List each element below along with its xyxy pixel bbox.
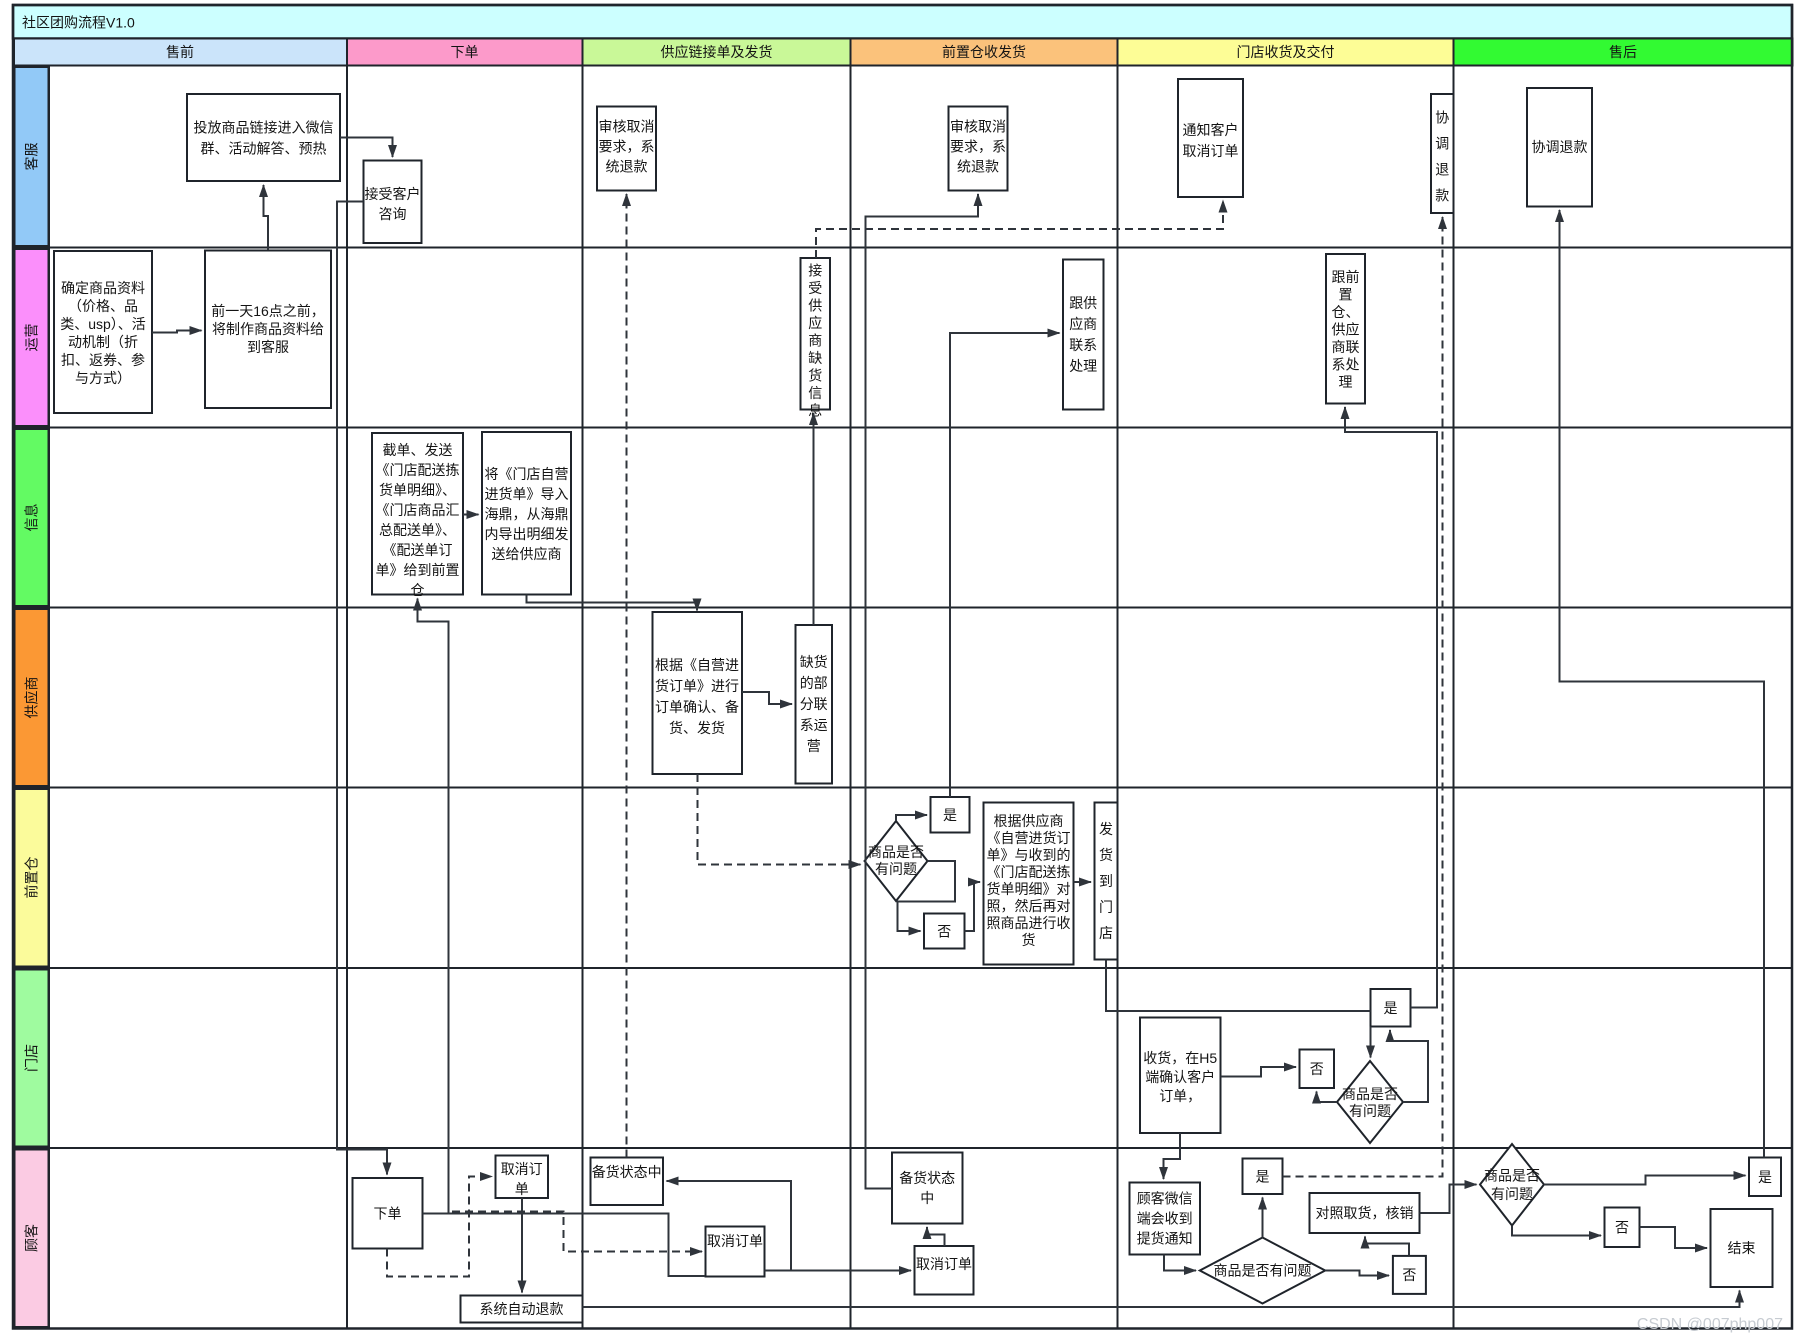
svg-text:供: 供 — [808, 298, 822, 314]
svg-text:结束: 结束 — [1728, 1240, 1756, 1256]
svg-text:单》给到前置: 单》给到前置 — [376, 562, 460, 578]
column boundary lines — [49, 66, 1454, 1329]
svg-text:单: 单 — [515, 1181, 529, 1197]
svg-text:前一天16点之前，: 前一天16点之前， — [211, 303, 325, 319]
lane boundary lines — [13, 248, 1792, 1149]
svg-text:动机制（折: 动机制（折 — [68, 334, 138, 350]
column header 供应链接单及发货 — [583, 39, 851, 66]
wire 顾客微信端 to 商品是否有问题(顾客/门店) — [1164, 1255, 1196, 1271]
svg-text:下单: 下单 — [451, 44, 479, 60]
svg-text:供应: 供应 — [1332, 322, 1360, 338]
svg-text:下单: 下单 — [374, 1206, 402, 1222]
wire 确定商品资料 to 前一天16点之前 — [152, 331, 202, 333]
svg-text:置: 置 — [1339, 287, 1353, 303]
svg-text:跟供: 跟供 — [1069, 295, 1097, 311]
wire 截单 to 将《门店自营进货单》 — [463, 514, 479, 516]
svg-text:审核取消: 审核取消 — [599, 119, 655, 135]
svg-text:截单、发送: 截单、发送 — [383, 442, 453, 458]
svg-text:仓、: 仓、 — [1332, 304, 1360, 320]
svg-text:否: 否 — [1615, 1220, 1629, 1236]
svg-text:信息: 信息 — [24, 504, 40, 532]
decision diamond 商品是否有问题 (顾客/门店) — [1200, 1238, 1325, 1304]
svg-text:前置仓收发货: 前置仓收发货 — [942, 44, 1026, 60]
wire 将《门店自营进货单》 to 根据《自营进货订单》 — [527, 595, 698, 611]
svg-text:内导出明细发: 内导出明细发 — [485, 526, 569, 542]
svg-text:是: 是 — [1384, 1000, 1398, 1016]
svg-text:店: 店 — [1099, 925, 1113, 941]
svg-text:《配送单订: 《配送单订 — [383, 542, 453, 558]
svg-text:取消订: 取消订 — [501, 1161, 543, 1177]
svg-text:提货通知: 提货通知 — [1137, 1231, 1193, 1247]
wire 否(售后) to 结束 — [1640, 1227, 1708, 1248]
title bar — [13, 5, 1792, 39]
wire 接受客户咨询 to 下单 — [337, 202, 387, 1175]
process box 取消订单 #3 (顾客/前置仓) — [915, 1246, 974, 1295]
lane label 客服 — [15, 67, 49, 246]
svg-text:商: 商 — [808, 333, 822, 349]
svg-text:进货单》导入: 进货单》导入 — [485, 486, 569, 502]
svg-text:将制作商品资料给: 将制作商品资料给 — [212, 321, 324, 337]
process box 根据《自营进货订单》进行订单确认 (供应商/供应链) — [653, 612, 743, 774]
wire 根据供应商对照收货 to 发货到门店 — [1074, 881, 1092, 883]
wire 下单 to 取消订单2 bottom corner — [449, 1214, 706, 1277]
svg-text:货订单》进行: 货订单》进行 — [655, 678, 739, 694]
wire 取消订单3 to 备货状态中2 — [927, 1227, 945, 1246]
svg-text:取消订单: 取消订单 — [916, 1256, 972, 1272]
svg-text:顾客: 顾客 — [24, 1224, 40, 1252]
process box 投放商品链接进入微信群、活动解答、预热 (客服/售前) — [187, 94, 340, 181]
dashed wire 备货状态中1 to 审核取消1 — [626, 194, 628, 1158]
dashed wire 是(顾客/门店) to 协调退款(门店narrow) — [1283, 217, 1443, 1177]
svg-text:总配送单》、: 总配送单》、 — [379, 522, 456, 538]
svg-text:系运: 系运 — [800, 717, 828, 733]
svg-text:是: 是 — [1256, 1169, 1270, 1185]
svg-text:商品是否: 商品是否 — [1484, 1168, 1540, 1184]
process box 发货到门店 vertical (前置仓) — [1095, 803, 1118, 960]
svg-text:协调退款: 协调退款 — [1532, 139, 1588, 155]
svg-text:端会收到: 端会收到 — [1137, 1211, 1193, 1227]
column header 售前 — [14, 39, 347, 66]
process box 审核取消要求，系统退款 #2 (客服/前置仓) — [949, 107, 1008, 191]
decision diamond 商品是否有问题 (门店) — [1337, 1061, 1403, 1143]
wire 否(前置仓) to 根据供应商对照收货 — [965, 882, 981, 931]
lane label 门店 — [15, 970, 49, 1147]
wire 系统自动退款 to 结束 — [583, 1291, 1740, 1308]
svg-text:类、usp）、活: 类、usp）、活 — [60, 316, 146, 332]
process box 收货，在H5端确认客户订单 (门店) — [1140, 1018, 1221, 1134]
process box 系统自动退款 (顾客/下单) — [461, 1296, 583, 1323]
svg-text:投放商品链接进入微信: 投放商品链接进入微信 — [194, 120, 334, 136]
dashed wire 下单 to 取消订单1 — [387, 1177, 492, 1277]
wire 商品是否有问题(门店) to 是(门店) loop — [1390, 1030, 1428, 1102]
svg-text:商品是否有问题: 商品是否有问题 — [1214, 1263, 1312, 1279]
svg-text:供应链接单及发货: 供应链接单及发货 — [661, 44, 773, 60]
box 否 (顾客/门店) — [1393, 1256, 1426, 1294]
process box 截单、发送...给到前置仓 (信息/下单) — [372, 433, 463, 598]
svg-text:订单，: 订单， — [1159, 1088, 1201, 1104]
svg-text:有问题: 有问题 — [1491, 1186, 1533, 1202]
svg-text:群、活动解答、预热: 群、活动解答、预热 — [201, 141, 327, 157]
dashed wire 接受供应商缺货信息 to 通知客户取消订单 — [816, 201, 1223, 259]
svg-text:扣、返券、参: 扣、返券、参 — [61, 352, 145, 368]
svg-text:照商品进行收: 照商品进行收 — [987, 915, 1071, 931]
svg-text:单》与收到的: 单》与收到的 — [987, 847, 1071, 863]
wire 备货状态中2 to 审核取消2 — [866, 194, 979, 1189]
column header 门店收货及交付 — [1118, 39, 1454, 66]
svg-text:《门店配送拣: 《门店配送拣 — [376, 462, 460, 478]
svg-text:系处: 系处 — [1332, 357, 1360, 373]
svg-text:否: 否 — [937, 924, 951, 940]
column header 下单 — [347, 39, 583, 66]
process box 接受供应商缺货信息 vertical (运营/供应链) — [801, 258, 831, 419]
wire 取消订单2 to 取消订单3 — [765, 1270, 912, 1272]
svg-text:通知客户: 通知客户 — [1183, 122, 1239, 138]
process box 确定商品资料 (运营/售前) — [54, 251, 152, 413]
svg-text:货: 货 — [808, 368, 822, 384]
wire 前一天16点之前 to 投放商品链接 — [264, 185, 269, 250]
process box 取消订单 #1 (顾客/下单) — [496, 1156, 549, 1199]
svg-text:的部: 的部 — [800, 675, 828, 691]
svg-text:到客服: 到客服 — [247, 339, 289, 355]
process box 通知客户取消订单 (客服/门店) — [1178, 79, 1243, 197]
process box 顾客微信端会收到提货通知 (顾客/门店) — [1130, 1183, 1201, 1255]
process box 跟供应商联系处理 (运营/前置仓) — [1063, 260, 1104, 410]
wire 商品是否有问题(售后) to 是 — [1544, 1176, 1746, 1185]
process box 跟前置仓、供应商联系处理 (运营/门店) — [1326, 254, 1365, 404]
svg-text:取消订单: 取消订单 — [1183, 143, 1239, 159]
svg-text:统退款: 统退款 — [606, 159, 648, 175]
process box 协调退款 vertical (客服/门店) — [1431, 94, 1454, 213]
svg-text:联系: 联系 — [1069, 337, 1097, 353]
process box 协调退款 (客服/售后) — [1527, 88, 1592, 207]
svg-text:货单明细》对: 货单明细》对 — [987, 881, 1071, 897]
process box 取消订单 #2 (顾客/供应链) — [706, 1227, 765, 1277]
svg-text:客服: 客服 — [24, 143, 40, 171]
svg-text:退: 退 — [1435, 162, 1449, 178]
wire 下单 to 截单 — [418, 599, 449, 1214]
wire 是(前置仓) to 跟供应商联系处理 — [950, 333, 1060, 797]
process box 备货状态中 #2 (顾客/前置仓) — [892, 1153, 963, 1224]
svg-text:是: 是 — [943, 807, 957, 823]
svg-text:审核取消: 审核取消 — [950, 119, 1006, 135]
svg-text:端确认客户: 端确认客户 — [1145, 1069, 1215, 1085]
svg-text:处理: 处理 — [1069, 358, 1097, 374]
svg-text:受: 受 — [808, 280, 822, 296]
process box 备货状态中 #1 (顾客/供应链) — [591, 1158, 664, 1206]
svg-text:信: 信 — [808, 385, 822, 401]
svg-text:门店收货及交付: 门店收货及交付 — [1237, 44, 1335, 60]
svg-text:根据供应商: 根据供应商 — [994, 813, 1064, 829]
svg-text:发: 发 — [1099, 821, 1113, 837]
box 否 (门店) — [1300, 1050, 1335, 1089]
wire junction to 备货状态中1 — [667, 1181, 792, 1271]
svg-text:售后: 售后 — [1609, 44, 1637, 60]
svg-text:货、发货: 货、发货 — [669, 720, 725, 736]
svg-text:接受客户: 接受客户 — [365, 186, 421, 202]
svg-text:货: 货 — [1022, 932, 1036, 948]
lane label 顾客 — [15, 1150, 49, 1328]
svg-text:门店: 门店 — [24, 1044, 40, 1072]
svg-text:海鼎，从海鼎: 海鼎，从海鼎 — [485, 506, 569, 522]
svg-text:商联: 商联 — [1332, 339, 1360, 355]
wire 投放商品链接 to 接受客户咨询 — [340, 138, 393, 158]
wire 对照取货核销 to 商品是否有问题(顾客/售后) — [1420, 1185, 1477, 1214]
svg-text:商品是否: 商品是否 — [1342, 1086, 1398, 1102]
box 是 (门店) — [1371, 989, 1411, 1027]
box 是 (前置仓) — [931, 797, 970, 833]
wire 根据《自营进货订单》 to 缺货的部分联系运营 — [742, 692, 792, 704]
svg-text:仓: 仓 — [411, 582, 425, 598]
wire 商品是否有问题(前置仓) to 是 — [896, 815, 927, 821]
svg-text:对照取货，核销: 对照取货，核销 — [1316, 1205, 1414, 1221]
svg-text:要求，系: 要求，系 — [599, 139, 655, 155]
wire 收货H5 to 否(门店) — [1221, 1067, 1297, 1077]
svg-text:《自营进货订: 《自营进货订 — [987, 830, 1071, 846]
process box 审核取消要求，系统退款 #1 (客服/供应链) — [597, 107, 656, 191]
wire 是(门店) to 商品是否有问题(门店) — [1370, 1027, 1372, 1058]
svg-text:前置仓: 前置仓 — [24, 857, 40, 899]
wire 是(顾客/售后) to 协调退款(售后) — [1560, 210, 1765, 1158]
decision diamond 商品是否有问题 (顾客/售后) — [1480, 1144, 1544, 1226]
svg-text:有问题: 有问题 — [875, 861, 917, 877]
wire 商品是否有问题(售后) to 否 — [1512, 1226, 1601, 1236]
process box 根据供应商《自营进货订单》对照收货 (前置仓) — [984, 803, 1074, 965]
svg-text:CSDN @007php007: CSDN @007php007 — [1637, 1316, 1783, 1333]
svg-text:订单确认、备: 订单确认、备 — [655, 699, 739, 715]
wire 商品是否有问题(顾客/门店) to 是 — [1262, 1198, 1264, 1238]
lane label 信息 — [15, 429, 49, 606]
svg-text:备货状态中: 备货状态中 — [592, 1164, 662, 1180]
dashed wire 根据《自营进货订单》 to 商品是否有问题(前置仓) — [698, 774, 861, 865]
svg-text:否: 否 — [1402, 1267, 1416, 1283]
wire 取消订单1 to 系统自动退款 — [521, 1198, 523, 1293]
svg-text:（价格、品: （价格、品 — [68, 298, 138, 314]
dashed wire 下单 to 取消订单2 — [452, 1212, 702, 1252]
svg-text:将《门店自营: 将《门店自营 — [485, 466, 569, 482]
process box 对照取货，核销 (顾客/门店) — [1310, 1193, 1420, 1233]
svg-text:商品是否: 商品是否 — [868, 844, 924, 860]
svg-text:取消订单: 取消订单 — [707, 1233, 763, 1249]
svg-text:系统自动退款: 系统自动退款 — [480, 1301, 564, 1317]
process box 接受客户咨询 (客服/下单) — [364, 161, 422, 244]
svg-text:接: 接 — [808, 263, 822, 279]
svg-text:是: 是 — [1758, 1169, 1772, 1185]
svg-text:送给供应商: 送给供应商 — [492, 546, 562, 562]
svg-text:《门店配送拣: 《门店配送拣 — [987, 864, 1071, 880]
svg-text:社区团购流程V1.0: 社区团购流程V1.0 — [22, 15, 135, 31]
svg-text:应商: 应商 — [1069, 316, 1097, 332]
svg-text:中: 中 — [920, 1190, 934, 1206]
wire 商品是否有问题(顾客/门店) to 否 — [1325, 1271, 1389, 1276]
svg-text:供应商: 供应商 — [24, 677, 40, 719]
svg-text:确定商品资料: 确定商品资料 — [61, 280, 145, 296]
process box 将《门店自营进货单》导入海鼎 (信息/下单) — [482, 432, 571, 595]
svg-text:收货，在H5: 收货，在H5 — [1143, 1050, 1217, 1066]
svg-text:应: 应 — [808, 315, 822, 331]
svg-text:缺: 缺 — [808, 350, 822, 366]
svg-text:根据《自营进: 根据《自营进 — [655, 657, 739, 673]
wire 收货H5 to 顾客微信端 — [1164, 1133, 1181, 1179]
lane label 运营 — [15, 249, 49, 426]
wire 商品是否有问题(前置仓) to 否 loop — [898, 861, 956, 931]
svg-text:跟前: 跟前 — [1332, 269, 1360, 285]
svg-text:顾客微信: 顾客微信 — [1137, 1191, 1193, 1207]
svg-text:咨询: 咨询 — [379, 206, 407, 222]
process box 缺货的部分联系运营 (供应商/供应链) — [796, 625, 833, 784]
wire 商品是否有问题(门店) to 否(门店) — [1317, 1092, 1338, 1103]
box 是 (顾客/门店) — [1243, 1159, 1283, 1195]
column header 售后 — [1454, 39, 1793, 66]
process box 前一天16点之前 (运营/售前) — [205, 251, 331, 409]
process box 下单 (顾客/下单) — [353, 1178, 423, 1249]
svg-text:货: 货 — [1099, 847, 1113, 863]
wire 否(顾客/门店) to 对照取货核销 — [1365, 1237, 1409, 1256]
svg-text:否: 否 — [1310, 1061, 1324, 1077]
decision diamond 商品是否有问题 (前置仓) — [865, 821, 928, 901]
box 否 (顾客/售后) — [1605, 1208, 1640, 1248]
svg-text:分联: 分联 — [800, 696, 828, 712]
box 否 (前置仓) — [924, 914, 965, 949]
svg-text:照，然后再对: 照，然后再对 — [987, 898, 1071, 914]
wire 缺货的部分联系运营 to 接受供应商缺货信息 — [813, 413, 815, 625]
svg-text:门: 门 — [1099, 899, 1113, 915]
wire 发货到门店 to 是(门店) — [1106, 960, 1371, 1012]
lane label 前置仓 — [15, 789, 49, 967]
svg-text:要求，系: 要求，系 — [950, 139, 1006, 155]
svg-text:到: 到 — [1099, 873, 1113, 889]
column header 前置仓收发货 — [851, 39, 1118, 66]
svg-text:《门店商品汇: 《门店商品汇 — [376, 502, 460, 518]
box 是 (顾客/售后) — [1749, 1158, 1781, 1197]
svg-text:款: 款 — [1435, 188, 1449, 204]
svg-text:备货状态: 备货状态 — [899, 1170, 955, 1186]
wire 是(门店) to 跟前置仓供应商联系处理 — [1345, 407, 1437, 1008]
svg-text:调: 调 — [1435, 136, 1449, 152]
svg-text:缺货: 缺货 — [800, 654, 828, 670]
svg-text:售前: 售前 — [166, 44, 194, 60]
svg-text:运营: 运营 — [24, 324, 40, 352]
svg-text:理: 理 — [1339, 374, 1353, 390]
process box 结束 (顾客/售后) — [1711, 1209, 1773, 1287]
svg-text:营: 营 — [807, 738, 821, 754]
lane label 供应商 — [15, 609, 49, 786]
svg-text:货单明细》、: 货单明细》、 — [379, 482, 456, 498]
svg-text:息: 息 — [808, 403, 822, 419]
svg-text:协: 协 — [1435, 110, 1449, 126]
svg-text:有问题: 有问题 — [1349, 1103, 1391, 1119]
svg-text:与方式）: 与方式） — [75, 370, 131, 386]
svg-text:统退款: 统退款 — [957, 159, 999, 175]
